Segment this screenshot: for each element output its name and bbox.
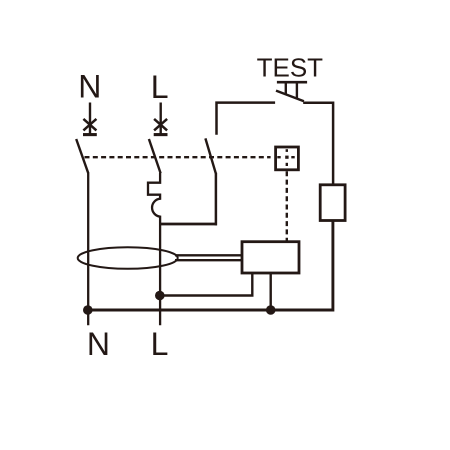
svg-text:L: L	[151, 326, 169, 362]
svg-text:N: N	[87, 326, 110, 362]
svg-text:N: N	[78, 69, 101, 105]
svg-text:L: L	[151, 69, 169, 105]
svg-text:TEST: TEST	[257, 52, 324, 82]
